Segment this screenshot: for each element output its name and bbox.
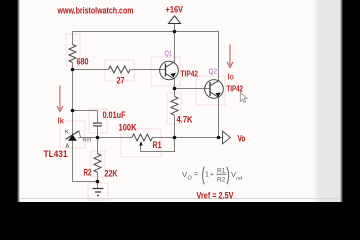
svg-text:100K: 100K [119, 123, 137, 133]
svg-text:A: A [66, 144, 70, 150]
svg-text:=: = [194, 172, 198, 179]
svg-text:+: + [210, 172, 214, 179]
svg-text:R1: R1 [153, 140, 162, 150]
svg-text:Ref: Ref [83, 138, 92, 144]
svg-text:Vref = 2.5V: Vref = 2.5V [197, 191, 234, 201]
svg-text:www.bristolwatch.com: www.bristolwatch.com [57, 6, 134, 16]
svg-text:R2: R2 [217, 177, 226, 184]
svg-text:Q1: Q1 [165, 51, 173, 58]
svg-text:Vo: Vo [238, 134, 246, 144]
svg-text:Q2: Q2 [209, 69, 218, 76]
svg-text:22K: 22K [105, 169, 118, 179]
svg-text:V: V [231, 170, 236, 179]
svg-text:27: 27 [117, 76, 125, 86]
svg-text:TIP42: TIP42 [227, 85, 244, 94]
svg-text:Ik: Ik [58, 117, 65, 126]
svg-text:TL431: TL431 [44, 149, 68, 159]
svg-text:ref: ref [236, 176, 242, 182]
svg-text:Io: Io [228, 73, 235, 82]
svg-text:V: V [182, 170, 187, 179]
svg-text:R2: R2 [84, 168, 92, 178]
svg-text:O: O [188, 175, 193, 181]
svg-text:4.7K: 4.7K [177, 115, 193, 125]
svg-text:R1: R1 [217, 168, 226, 175]
svg-text:+16V: +16V [166, 5, 184, 15]
svg-text:1: 1 [205, 172, 209, 179]
svg-text:K: K [65, 130, 69, 136]
svg-text:0.01uF: 0.01uF [103, 110, 126, 120]
svg-text:680: 680 [77, 57, 89, 67]
svg-text:TIP42: TIP42 [181, 70, 199, 79]
